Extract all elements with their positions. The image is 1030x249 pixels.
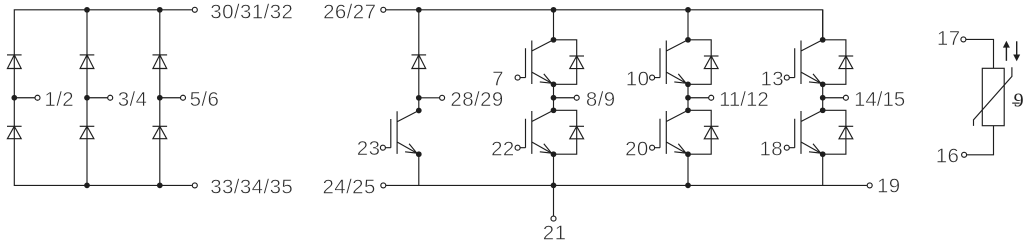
node AC input leg 2 xyxy=(84,95,90,101)
inverter leg 14/15 mid wire xyxy=(822,84,824,110)
freewheel diode D16 xyxy=(839,125,854,127)
svg-text:14/15: 14/15 xyxy=(854,88,905,111)
junction emitter Q3 xyxy=(685,81,691,87)
inverter IGBT Q5 (top) xyxy=(789,40,822,85)
junction emitter Q1 xyxy=(551,81,557,87)
junction chopper top bus xyxy=(416,7,422,13)
node AC output 14/15 xyxy=(820,95,826,101)
svg-text:20: 20 xyxy=(625,137,649,160)
freewheel diode D13 wiring xyxy=(688,40,711,85)
rectifier diode D3 (top, leg 2) xyxy=(80,54,95,56)
rectifier outer wire loop (top bus / leg 1 / bottom bus) xyxy=(14,10,192,186)
svg-text:21: 21 xyxy=(543,222,567,245)
terminal 11/12 xyxy=(709,95,714,100)
freewheel diode D15 xyxy=(839,55,854,57)
svg-text:19: 19 xyxy=(877,175,901,198)
junction collector Q5 xyxy=(820,37,826,43)
svg-text:33/34/35: 33/34/35 xyxy=(210,176,293,199)
chopper branch wire (bottom) xyxy=(418,154,420,185)
rectifier diode D4 (bottom, leg 2) xyxy=(80,125,95,127)
junction chopper IGBT emitter xyxy=(416,151,422,157)
junction collector Q2 xyxy=(551,107,557,113)
terminal stub 3/4 xyxy=(87,97,108,99)
junction emitter Q4 xyxy=(685,151,691,157)
junction collector Q3 xyxy=(685,37,691,43)
junction chopper IGBT collector xyxy=(416,108,422,114)
terminal 16 xyxy=(962,152,967,157)
chopper branch wire (top) xyxy=(418,10,420,111)
svg-text:17: 17 xyxy=(937,27,961,50)
inverter IGBT Q4 (bottom) xyxy=(655,110,688,154)
junction emitter Q5 xyxy=(820,81,826,87)
svg-text:28/29: 28/29 xyxy=(450,88,503,111)
rectifier leg 2 wire xyxy=(86,10,88,186)
terminal 8/9 xyxy=(574,95,579,100)
rectifier diode D6 (bottom, leg 3) xyxy=(153,125,168,127)
terminal stub 21 xyxy=(553,185,555,216)
svg-text:30/31/32: 30/31/32 xyxy=(210,0,293,23)
freewheel diode D16 wiring xyxy=(823,110,846,154)
gate terminal 22 xyxy=(515,145,520,150)
chopper diode D7 xyxy=(412,54,427,56)
chopper IGBT Q7 xyxy=(385,111,418,155)
junction rectifier top bus leg 3 xyxy=(157,7,163,13)
terminal stub 1/2 xyxy=(14,97,35,99)
terminal 26/27 xyxy=(381,7,386,12)
inverter leg 8/9 top wire xyxy=(553,10,555,40)
freewheel diode D12 wiring xyxy=(554,110,577,154)
inverter IGBT Q3 (top) xyxy=(655,40,688,85)
svg-text:24/25: 24/25 xyxy=(322,176,375,199)
junction bottom bus leg 11/12 xyxy=(685,183,691,189)
terminal 33/34/35 xyxy=(192,183,197,188)
junction bottom bus leg 8/9 xyxy=(551,183,557,189)
freewheel diode D12 xyxy=(569,125,584,127)
svg-text:3/4: 3/4 xyxy=(118,88,148,111)
rectifier diode D2 (bottom, leg 1) xyxy=(7,125,22,127)
wire thermistor to terminal 16 xyxy=(967,126,994,155)
node 28/29 junction xyxy=(416,95,422,101)
inverter leg 11/12 mid wire xyxy=(687,84,689,110)
junction rectifier bottom bus leg 3 xyxy=(157,183,163,189)
junction collector Q4 xyxy=(685,107,691,113)
svg-text:13: 13 xyxy=(761,67,785,90)
inverter IGBT Q2 (bottom) xyxy=(520,110,553,154)
svg-text:5/6: 5/6 xyxy=(190,88,220,111)
terminal 5/6 xyxy=(181,95,186,100)
inverter leg 14/15 top wire xyxy=(822,10,824,40)
svg-text:23: 23 xyxy=(357,137,381,160)
terminal stub 5/6 xyxy=(160,97,181,99)
node AC input leg 1 xyxy=(11,95,17,101)
wire terminal 17 to thermistor xyxy=(966,39,994,68)
junction emitter Q2 xyxy=(551,151,557,157)
DC+ top bus wire xyxy=(386,10,823,40)
gate terminal 13 xyxy=(784,75,789,80)
inverter leg 11/12 bottom wire xyxy=(687,154,689,185)
rectifier leg 3 wire xyxy=(159,10,161,186)
inverter IGBT Q6 (bottom) xyxy=(789,110,822,154)
terminal 17 xyxy=(961,37,966,42)
gate terminal 7 xyxy=(515,75,520,80)
junction top bus leg 8/9 xyxy=(551,7,557,13)
terminal 3/4 xyxy=(108,95,113,100)
rectifier diode D1 (top, leg 1) xyxy=(7,54,22,56)
inverter leg 8/9 bottom wire xyxy=(553,154,555,185)
terminal 24/25 xyxy=(381,183,386,188)
junction emitter Q6 xyxy=(820,151,826,157)
junction top bus leg 11/12 xyxy=(685,7,691,13)
gate terminal 20 xyxy=(650,145,655,150)
terminal 14/15 xyxy=(843,95,848,100)
rectifier diode D5 (top, leg 3) xyxy=(153,54,168,56)
terminal stub 28/29 xyxy=(419,97,440,99)
svg-text:10: 10 xyxy=(626,67,650,90)
terminal stub 11/12 xyxy=(688,97,709,99)
freewheel diode D11 wiring xyxy=(554,40,577,85)
svg-text:11/12: 11/12 xyxy=(719,88,769,111)
temperature arrow down xyxy=(1016,41,1018,55)
svg-text:22: 22 xyxy=(491,137,515,160)
thermistor R1 diagonal stroke xyxy=(974,67,1012,126)
freewheel diode D14 wiring xyxy=(688,110,711,154)
freewheel diode D11 xyxy=(569,55,584,57)
gate terminal 10 xyxy=(650,75,655,80)
inverter leg 8/9 mid wire xyxy=(553,84,555,110)
gate terminal 23 xyxy=(380,145,385,150)
junction rectifier bottom bus leg 2 xyxy=(84,183,90,189)
freewheel diode D14 xyxy=(704,125,719,127)
svg-text:18: 18 xyxy=(760,137,784,160)
inverter IGBT Q1 (top) xyxy=(520,40,553,85)
terminal stub 8/9 xyxy=(554,97,575,99)
svg-text:9: 9 xyxy=(1014,89,1024,111)
svg-text:26/27: 26/27 xyxy=(323,0,376,23)
node AC input leg 3 xyxy=(157,95,163,101)
junction rectifier top bus leg 2 xyxy=(84,7,90,13)
terminal 28/29 xyxy=(440,95,445,100)
junction collector Q1 xyxy=(551,37,557,43)
node AC output 11/12 xyxy=(685,95,691,101)
freewheel diode D15 wiring xyxy=(823,40,846,85)
gate terminal 18 xyxy=(784,145,789,150)
terminal 1/2 xyxy=(35,95,40,100)
svg-text:7: 7 xyxy=(492,67,504,90)
svg-text:8/9: 8/9 xyxy=(586,88,616,111)
terminal stub 14/15 xyxy=(823,97,844,99)
DC- bottom bus wire xyxy=(386,184,867,186)
inverter leg 14/15 bottom wire xyxy=(822,154,824,185)
temperature arrow up xyxy=(1005,47,1007,61)
inverter leg 11/12 top wire xyxy=(687,10,689,40)
node AC output 8/9 xyxy=(551,95,557,101)
freewheel diode D13 xyxy=(704,55,719,57)
junction collector Q6 xyxy=(820,107,826,113)
thermistor R1 body xyxy=(982,68,1004,125)
terminal 19 xyxy=(867,183,872,188)
svg-text:16: 16 xyxy=(936,144,960,167)
terminal 30/31/32 xyxy=(192,7,197,12)
svg-text:1/2: 1/2 xyxy=(44,88,74,111)
terminal 21 xyxy=(551,216,556,221)
